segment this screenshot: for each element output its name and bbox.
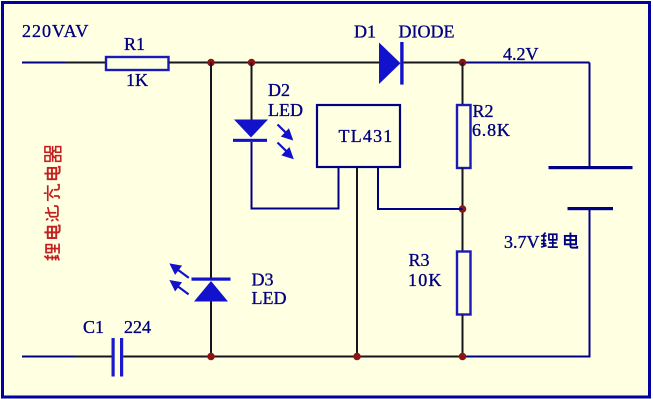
svg-text:R1: R1: [124, 34, 145, 54]
svg-text:C1: C1: [83, 317, 104, 337]
svg-text:LED: LED: [268, 100, 303, 120]
wire D1 cathode to node 4.2V: [404, 62, 590, 64]
svg-text:LED: LED: [252, 288, 287, 308]
capacitor C1: [112, 338, 124, 377]
svg-text:4.2V: 4.2V: [503, 44, 539, 64]
title 锂电池充电器 (vertical red): [44, 146, 61, 260]
wire battery negative to ground rail: [463, 210, 590, 357]
svg-text:224: 224: [124, 317, 151, 337]
wire R3 to ground rail: [462, 315, 464, 357]
junction ground rail / D3: [207, 353, 215, 361]
svg-text:D2: D2: [268, 80, 290, 100]
wire top rail down to D3: [210, 63, 212, 278]
svg-text:DIODE: DIODE: [399, 22, 455, 42]
svg-text:R3: R3: [409, 250, 430, 270]
wire 4.2V node down to R2: [462, 63, 464, 106]
junction ground rail / TL431 pin2: [353, 353, 361, 361]
diode D1: [379, 42, 404, 85]
svg-text:TL431: TL431: [339, 126, 394, 146]
junction feedback node R2/R3/TL431: [459, 205, 467, 213]
svg-text:10K: 10K: [408, 270, 443, 290]
wire 4.2V to battery positive: [589, 63, 591, 167]
junction top rail / D3 branch: [207, 59, 215, 67]
svg-text:3.7V: 3.7V: [504, 232, 540, 252]
label 3.7V锂电: [504, 232, 577, 252]
svg-text:6.8K: 6.8K: [472, 120, 511, 140]
wire AC live input to R1: [22, 62, 106, 64]
LED D2: [233, 120, 268, 142]
battery BT1 negative plate: [568, 207, 614, 210]
LED D2 light arrows: [278, 125, 293, 158]
wire D2 branch from top rail: [251, 63, 253, 120]
junction 4.2V / R2: [459, 59, 467, 67]
svg-text:R2: R2: [473, 101, 494, 121]
svg-text:220VAV: 220VAV: [22, 21, 89, 41]
junction top rail / D2 branch: [248, 59, 256, 67]
wire ground rail: [123, 356, 463, 358]
svg-text:D1: D1: [354, 22, 376, 42]
op-amp U1 TL431 body: [317, 105, 400, 167]
resistor R3: [457, 252, 471, 315]
resistor R2: [457, 105, 471, 168]
svg-text:D3: D3: [252, 270, 274, 290]
wire TL431 pin1 to D2 cathode: [252, 142, 339, 209]
resistor R1: [106, 57, 169, 70]
junction ground rail / R3 / battery return: [459, 353, 467, 361]
svg-text:1K: 1K: [126, 70, 148, 90]
wire D3 anode to ground rail: [210, 302, 212, 357]
LED D3 light arrows: [171, 265, 189, 295]
wire R2 to R3 through feedback node: [462, 168, 464, 252]
wire AC neutral input to C1: [22, 356, 112, 358]
wire TL431 pin2 to ground rail: [356, 168, 358, 357]
wire R1 to D1 anode: [169, 62, 380, 64]
battery BT1 positive plate: [549, 166, 633, 169]
LED D3: [192, 278, 231, 302]
wire TL431 pin3 to feedback node: [378, 168, 463, 210]
